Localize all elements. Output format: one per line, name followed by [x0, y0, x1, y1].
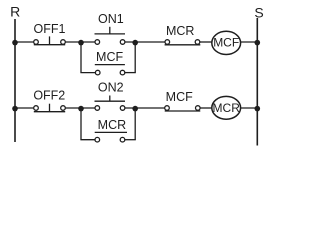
rung 2 wire: MCF contact to coil MCR [198, 107, 212, 109]
pushbutton ON2 (NO) [95, 96, 126, 111]
svg-text:MCR: MCR [166, 24, 194, 38]
svg-text:MCR: MCR [98, 118, 126, 132]
node: rung1 on left rail [12, 40, 18, 46]
svg-text:MCF: MCF [213, 35, 239, 49]
node: rung1 on right rail [254, 40, 260, 46]
wire: branch1 horizontal right [123, 72, 136, 74]
wire: branch1 horizontal left [80, 72, 97, 74]
rung 1 wire: OFF1 to ON1 [63, 41, 97, 43]
svg-text:OFF1: OFF1 [34, 22, 66, 36]
svg-text:ON1: ON1 [98, 12, 124, 26]
rung 1 wire: rail to OFF1 [15, 41, 36, 43]
contact MCF (NC interlock) [165, 106, 201, 111]
rung 2 wire: OFF2 to ON2 [63, 107, 97, 109]
wire: branch1 right vertical [134, 42, 136, 73]
rung 1 wire: MCR contact to coil MCF [198, 41, 213, 43]
node: rung2 right branch junction [132, 106, 138, 112]
wire: branch2 right vertical [134, 108, 136, 140]
svg-text:MCF: MCF [166, 90, 193, 104]
rung 1 wire: ON1 to MCR contact [123, 41, 168, 43]
svg-text:R: R [10, 4, 20, 20]
svg-text:OFF2: OFF2 [33, 88, 65, 102]
rung 2 wire: coil MCR to rail S [241, 107, 258, 109]
svg-text:MCR: MCR [213, 101, 241, 115]
node: rung1 right branch junction [132, 40, 138, 46]
right power rail S [256, 18, 258, 146]
wire: branch2 horizontal left [80, 139, 97, 141]
node: rung2 on left rail [12, 106, 18, 112]
wire: branch2 left vertical [80, 108, 82, 140]
coil MCF [212, 31, 241, 54]
svg-text:S: S [254, 5, 263, 21]
rung 1 wire: coil MCF to rail S [241, 41, 258, 43]
contact MCR (NO seal-in) [95, 132, 127, 142]
rung 2 wire: rail to OFF2 [15, 107, 36, 109]
contact MCR (NC interlock) [165, 40, 201, 45]
coil MCR [212, 96, 241, 119]
pushbutton OFF1 (NC) [34, 36, 66, 44]
svg-text:MCF: MCF [96, 50, 123, 64]
wire: branch1 left vertical [80, 42, 82, 73]
node: rung2 left branch junction [78, 106, 84, 112]
left power rail R [14, 19, 16, 142]
svg-text:ON2: ON2 [98, 81, 124, 95]
contact MCF (NO seal-in) [95, 65, 125, 75]
node: rung2 on right rail [254, 106, 260, 112]
node: rung1 left branch junction [78, 40, 84, 46]
pushbutton ON1 (NO) [95, 27, 126, 45]
wire: branch2 horizontal right [123, 139, 136, 141]
pushbutton OFF2 (NC) [34, 104, 66, 112]
rung 2 wire: ON2 to MCF contact [123, 107, 167, 109]
